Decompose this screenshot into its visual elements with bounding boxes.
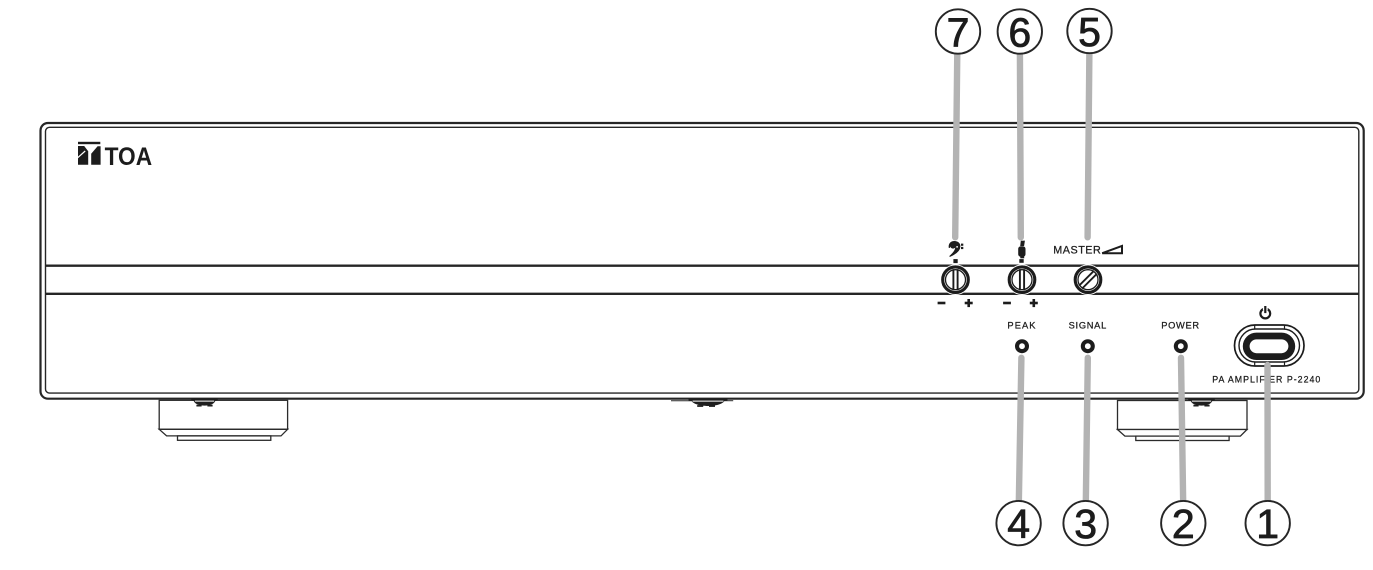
bass knob plus mark [965,299,973,307]
leader line from signal LED to callout 3 [1086,358,1088,504]
svg-text:2: 2 [1172,501,1195,547]
callout circle 4 [996,501,1040,547]
svg-text:4: 4 [1007,501,1030,547]
right foot mount screw detail [1188,398,1215,406]
treble knob indicator dot [1019,259,1023,263]
callout circle 2 [1161,501,1205,547]
MASTER volume wedge icon [1102,246,1122,253]
treble knob [1007,264,1038,295]
svg-text:TOA: TOA [105,143,153,171]
svg-text:POWER: POWER [1161,321,1200,331]
leader line from callout 7 to bass control [955,51,1267,505]
callout circle 1 [1246,501,1290,547]
power button [1235,325,1305,366]
svg-text:MASTER: MASTER [1053,245,1101,257]
svg-text:1: 1 [1256,501,1279,547]
svg-text:5: 5 [1078,9,1101,55]
power standby symbol [1260,306,1270,318]
bass knob [940,264,971,295]
TOA logo mark left block white crease [78,151,86,158]
POWER LED [1174,339,1188,353]
leader line from callout 5 to master volume [1088,51,1090,238]
PEAK LED [1015,339,1029,353]
leader line from peak LED to callout 4 [1019,358,1022,504]
recessed control strip top line [46,265,1359,267]
TOA logo mark top bar [78,142,100,144]
svg-text:6: 6 [1008,9,1031,55]
callout circle 6 [998,9,1042,55]
callout circle 7 [936,9,980,55]
recessed control strip bottom line [46,293,1359,295]
bass clef icon above bass knob [949,242,963,257]
treble knob plus mark [1030,299,1038,307]
amplifier front panel outer outline [41,123,1364,399]
svg-text:PEAK: PEAK [1007,321,1036,331]
leader line from power LED to callout 2 [1181,358,1183,504]
TOA logo mark left block [78,146,88,165]
callout circle 5 [1067,9,1111,55]
leader line from callout 6 to treble control [1017,51,1024,237]
master volume knob [1073,264,1104,295]
center bottom mount detail [671,398,733,407]
TOA logo mark right block [91,146,100,165]
leader line from power button to callout 1 [1264,365,1271,504]
amplifier front panel inner bevel line [46,127,1359,393]
callout circle 3 [1063,501,1107,547]
left foot mount screw detail [191,398,218,406]
SIGNAL LED [1081,339,1095,353]
svg-text:7: 7 [947,9,970,55]
right foot body [1118,401,1248,441]
bass knob minus mark [938,302,946,305]
left foot body [159,400,287,440]
svg-text:3: 3 [1074,501,1097,547]
bass knob indicator dot [953,259,957,263]
treble clef icon above treble knob [1018,241,1025,259]
svg-text:SIGNAL: SIGNAL [1069,321,1107,331]
treble knob minus mark [1003,302,1011,305]
